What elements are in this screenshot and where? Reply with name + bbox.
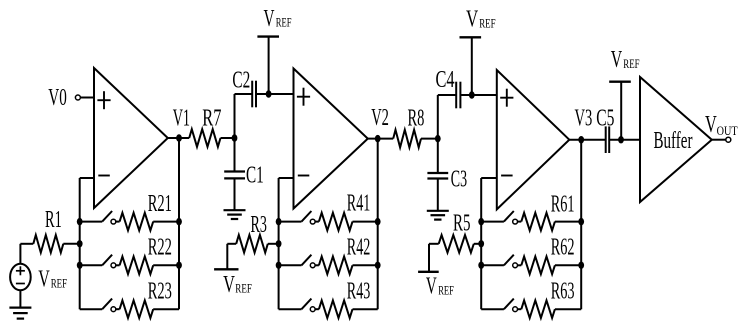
svg-text:REF: REF xyxy=(51,276,67,290)
svg-text:V1: V1 xyxy=(173,105,190,131)
svg-text:R5: R5 xyxy=(453,211,471,237)
svg-text:R3: R3 xyxy=(251,212,267,238)
svg-text:Buffer: Buffer xyxy=(654,128,693,154)
svg-text:C5: C5 xyxy=(596,106,614,132)
svg-text:V3: V3 xyxy=(575,105,593,131)
svg-text:REF: REF xyxy=(235,282,252,296)
svg-text:C3: C3 xyxy=(451,166,467,192)
svg-text:REF: REF xyxy=(276,16,292,30)
svg-text:V: V xyxy=(426,273,437,299)
svg-text:V: V xyxy=(223,272,235,298)
svg-text:REF: REF xyxy=(479,16,495,30)
svg-text:OUT: OUT xyxy=(717,123,738,138)
svg-text:V2: V2 xyxy=(371,105,389,131)
svg-text:R62: R62 xyxy=(551,235,575,261)
svg-text:C4: C4 xyxy=(436,67,455,93)
svg-text:V: V xyxy=(38,266,50,292)
svg-text:R61: R61 xyxy=(551,191,575,217)
svg-text:V: V xyxy=(466,7,479,33)
svg-text:R43: R43 xyxy=(347,279,371,305)
svg-text:R21: R21 xyxy=(148,191,172,217)
svg-text:R22: R22 xyxy=(148,235,172,261)
svg-text:V: V xyxy=(705,112,717,138)
svg-text:R1: R1 xyxy=(45,207,62,233)
svg-text:V: V xyxy=(264,6,275,32)
svg-text:C1: C1 xyxy=(246,162,264,188)
svg-text:V: V xyxy=(611,47,623,73)
svg-text:R41: R41 xyxy=(347,191,371,217)
svg-text:R23: R23 xyxy=(148,279,172,305)
svg-text:C2: C2 xyxy=(232,68,250,94)
svg-text:REF: REF xyxy=(438,283,454,297)
svg-text:R63: R63 xyxy=(551,279,575,305)
svg-text:R8: R8 xyxy=(408,105,425,131)
svg-text:V0: V0 xyxy=(48,85,67,111)
svg-text:R7: R7 xyxy=(202,106,221,132)
svg-text:R42: R42 xyxy=(347,235,371,261)
svg-text:REF: REF xyxy=(623,57,639,71)
